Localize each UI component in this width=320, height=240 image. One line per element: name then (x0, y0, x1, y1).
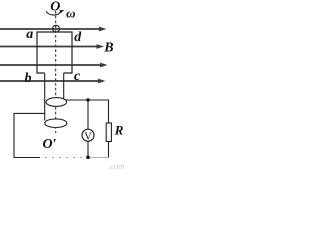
svg-text:.com: .com (108, 161, 125, 171)
svg-text:c: c (74, 69, 81, 84)
svg-text:R: R (114, 123, 124, 138)
svg-text:ω: ω (66, 6, 75, 21)
svg-text:b: b (25, 71, 32, 86)
svg-text:O: O (50, 0, 60, 15)
svg-text:B: B (103, 41, 113, 56)
svg-text:O′: O′ (43, 137, 57, 152)
svg-text:a: a (26, 27, 33, 42)
svg-text:V: V (84, 131, 92, 142)
svg-text:d: d (74, 30, 82, 45)
